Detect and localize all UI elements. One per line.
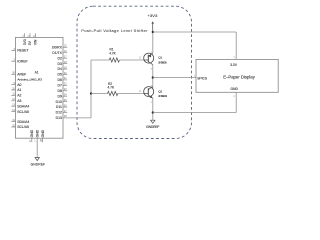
svg-text:3.3V: 3.3V <box>230 63 238 67</box>
wire input vertical <box>90 60 92 118</box>
svg-text:D13: D13 <box>56 116 62 120</box>
pin 30 AREF (left) <box>11 72 26 77</box>
svg-text:D9: D9 <box>58 94 62 98</box>
pin 25 D10 (right) <box>56 99 68 104</box>
pin 7 GND (bottom) <box>35 129 40 142</box>
wire to R1 <box>91 59 109 61</box>
svg-text:D8: D8 <box>58 89 62 93</box>
pin 27 D12 (right) <box>56 110 68 115</box>
pin 18 D3 (right) <box>58 61 68 66</box>
pin 2 3.3V (display top) <box>230 56 238 67</box>
svg-text:D5: D5 <box>58 73 62 77</box>
pin 17 D2 (right) <box>58 55 68 60</box>
svg-text:SCL/A5: SCL/A5 <box>17 125 29 129</box>
svg-text:Arduino_UNO_R3: Arduino_UNO_R3 <box>17 78 42 82</box>
ground GNDREF (level shifter) <box>146 120 159 129</box>
svg-text:+3V3: +3V3 <box>148 13 159 18</box>
svg-text:GND: GND <box>41 129 45 137</box>
svg-text:SDA/A4: SDA/A4 <box>17 104 29 108</box>
wire R2 to Q2 base <box>118 93 145 95</box>
pin 31 SDA/A4 (left) <box>11 119 29 124</box>
transistor Q2 2N3904 <box>144 87 154 99</box>
wire GND pin to ground symbol <box>36 142 38 157</box>
svg-text:4.7K: 4.7K <box>108 85 115 89</box>
svg-text:D10: D10 <box>56 100 62 104</box>
svg-text:GND: GND <box>35 129 39 137</box>
dashed enclosure box <box>77 6 192 138</box>
wire ground node to display GND pin <box>153 112 236 114</box>
pin 20 D5 (right) <box>58 72 68 77</box>
pin 3 GND (display bottom) <box>231 87 239 97</box>
pin 2 IOREF (left) <box>11 59 27 64</box>
svg-text:D7: D7 <box>58 84 62 88</box>
pin 15 D0/RX (right) <box>52 45 67 50</box>
svg-text:4.7K: 4.7K <box>109 52 116 56</box>
pin 16 D1/TX (right) <box>52 50 67 55</box>
svg-text:5V: 5V <box>28 40 32 45</box>
pin 12 A3 (left) <box>11 98 21 103</box>
pin 19 D4 (right) <box>58 66 68 71</box>
svg-text:D0/RX: D0/RX <box>52 46 63 50</box>
wire output to display SPICS <box>153 77 196 79</box>
pin 14 SCL/A5 (left) <box>11 109 29 114</box>
power +3V3 <box>148 13 159 32</box>
svg-text:GND: GND <box>30 129 34 137</box>
pin 3 RESET (left) <box>11 48 28 53</box>
svg-text:VIN: VIN <box>34 39 38 45</box>
svg-text:D4: D4 <box>58 67 62 71</box>
pin 29 GND (bottom) <box>40 129 45 142</box>
svg-text:2N3906: 2N3906 <box>158 60 167 64</box>
svg-text:Push-Pull Voltage Level Shifte: Push-Pull Voltage Level Shifter <box>81 28 148 33</box>
pin 8 VIN (top) <box>33 33 38 45</box>
pin 21 D6 (right) <box>58 77 68 82</box>
pin 22 D7 (right) <box>58 83 68 88</box>
svg-text:A3: A3 <box>17 99 21 103</box>
pin 23 D8 (right) <box>58 88 68 93</box>
junction +3V3 node <box>152 31 154 33</box>
display module body <box>196 59 278 92</box>
svg-text:A1: A1 <box>17 88 21 92</box>
pin 10 A1 (left) <box>11 87 21 92</box>
pin 1 SPICS (display left) <box>194 76 208 81</box>
pin 4 3V3 (top) <box>22 33 27 45</box>
transistor Q1 2N3906 <box>144 53 154 65</box>
pin 5 5V (top) <box>27 33 32 45</box>
svg-text:SDA/A4: SDA/A4 <box>17 120 29 124</box>
svg-text:AREF: AREF <box>17 73 26 77</box>
svg-text:2N3904: 2N3904 <box>158 94 167 98</box>
svg-text:GND: GND <box>231 87 239 91</box>
svg-text:SPICS: SPICS <box>197 77 208 81</box>
junction output node <box>152 76 154 78</box>
wire R1 to Q1 base <box>119 59 144 61</box>
pin 13 SDA/A4 (left) <box>11 104 29 109</box>
pin 28 D13 (right) <box>56 115 68 120</box>
resistor R1 4.7K <box>109 48 119 62</box>
svg-text:D1/TX: D1/TX <box>52 51 62 55</box>
svg-text:GNDREF: GNDREF <box>146 125 159 129</box>
svg-text:GNDREF: GNDREF <box>31 162 45 166</box>
svg-text:3V3: 3V3 <box>23 39 27 45</box>
svg-text:A1: A1 <box>35 71 39 75</box>
wire Q1 collector to Q2 collector <box>152 65 154 89</box>
wire Q2 emitter to ground node <box>152 98 154 120</box>
svg-text:D3: D3 <box>58 62 62 66</box>
svg-text:SCL/A5: SCL/A5 <box>17 110 29 114</box>
resistor R2 4.7K <box>108 82 118 96</box>
wire +3V3 down to Q1 emitter <box>152 32 154 53</box>
pin 9 A0 (left) <box>11 82 21 87</box>
svg-text:D12: D12 <box>56 111 62 115</box>
svg-text:A0: A0 <box>17 83 21 87</box>
pin 32 SCL/A5 (left) <box>11 124 29 129</box>
junction ground node <box>152 111 154 113</box>
pin 11 A2 (left) <box>11 93 21 98</box>
wire to R2 <box>91 93 108 95</box>
pin 26 D11 (right) <box>56 104 67 109</box>
wire D13 horizontal <box>67 117 91 119</box>
svg-text:A2: A2 <box>17 94 21 98</box>
pin 6 GND (bottom) <box>29 129 34 142</box>
svg-text:D11: D11 <box>56 105 62 109</box>
svg-text:Q2: Q2 <box>158 89 162 93</box>
wire +3V3 node to display 3.3V pin <box>153 31 236 33</box>
svg-text:RESET: RESET <box>17 49 28 53</box>
svg-text:D6: D6 <box>58 78 62 82</box>
arduino module A1 body <box>16 37 64 138</box>
svg-text:Q1: Q1 <box>158 56 162 60</box>
svg-text:D2: D2 <box>58 56 62 60</box>
junction input/R2 <box>90 92 92 94</box>
ground GNDREF (arduino) <box>31 158 45 167</box>
svg-text:E–Paper Display: E–Paper Display <box>223 75 256 80</box>
pin 24 D9 (right) <box>58 93 68 98</box>
svg-text:IOREF: IOREF <box>17 59 27 63</box>
